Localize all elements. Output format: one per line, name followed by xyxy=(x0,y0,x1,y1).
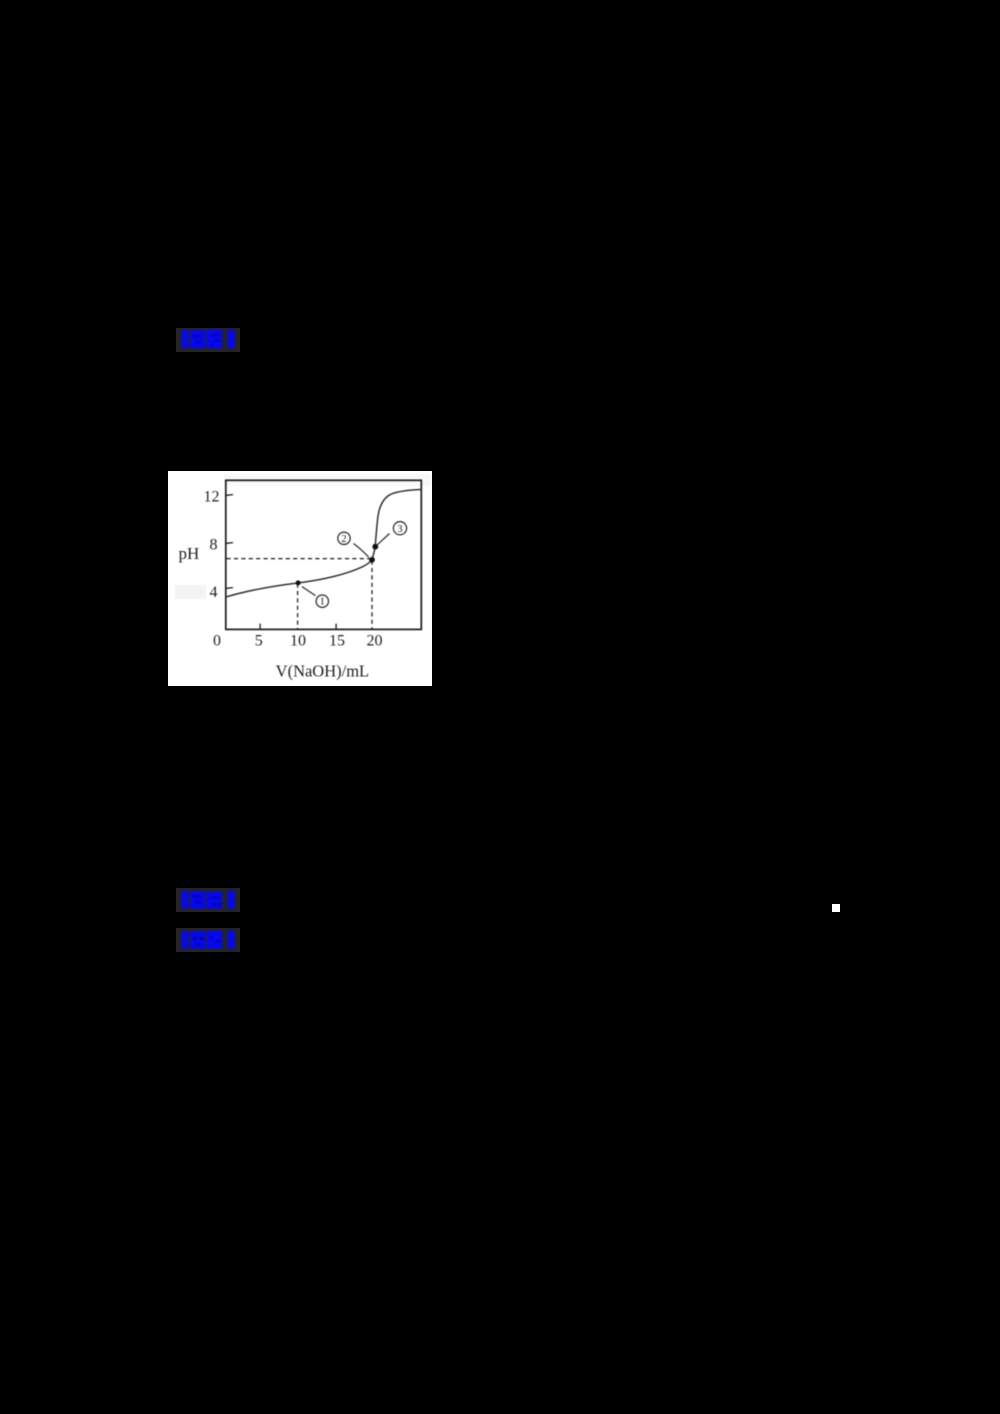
circled numbers xyxy=(316,522,406,608)
svg-text:8: 8 xyxy=(210,536,218,553)
leader lines xyxy=(302,534,390,596)
data dots xyxy=(296,544,379,586)
svg-text:15: 15 xyxy=(329,633,345,650)
y ticks xyxy=(227,495,337,629)
faint artifacts xyxy=(224,474,431,486)
svg-text:1: 1 xyxy=(320,597,325,608)
svg-text:0: 0 xyxy=(213,633,221,650)
plot box xyxy=(226,480,421,629)
svg-text:20: 20 xyxy=(367,633,383,650)
svg-text:5: 5 xyxy=(255,633,263,650)
titration curve xyxy=(226,489,422,597)
svg-text:12: 12 xyxy=(204,489,220,506)
blue label tag 3 : 分析 xyxy=(176,928,240,952)
svg-text:4: 4 xyxy=(210,584,218,601)
blue label tag 1 : 点评 xyxy=(176,328,240,352)
blue label tag 2 : 考点 xyxy=(176,888,240,912)
svg-text:3: 3 xyxy=(398,524,403,535)
small white square xyxy=(832,904,840,912)
dashed guides xyxy=(227,559,373,629)
svg-text:pH: pH xyxy=(179,544,200,563)
svg-text:2: 2 xyxy=(342,534,347,545)
svg-text:V(NaOH)/mL: V(NaOH)/mL xyxy=(276,662,369,681)
axis labels xyxy=(179,489,220,601)
chart image block xyxy=(168,471,432,686)
svg-text:10: 10 xyxy=(290,633,306,650)
